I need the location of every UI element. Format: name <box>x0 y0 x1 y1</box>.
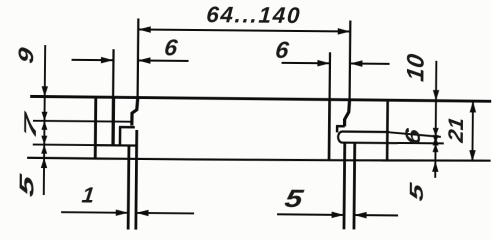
svg-text:64...140: 64...140 <box>206 2 302 28</box>
svg-text:21: 21 <box>443 116 467 145</box>
svg-text:10: 10 <box>402 52 429 83</box>
